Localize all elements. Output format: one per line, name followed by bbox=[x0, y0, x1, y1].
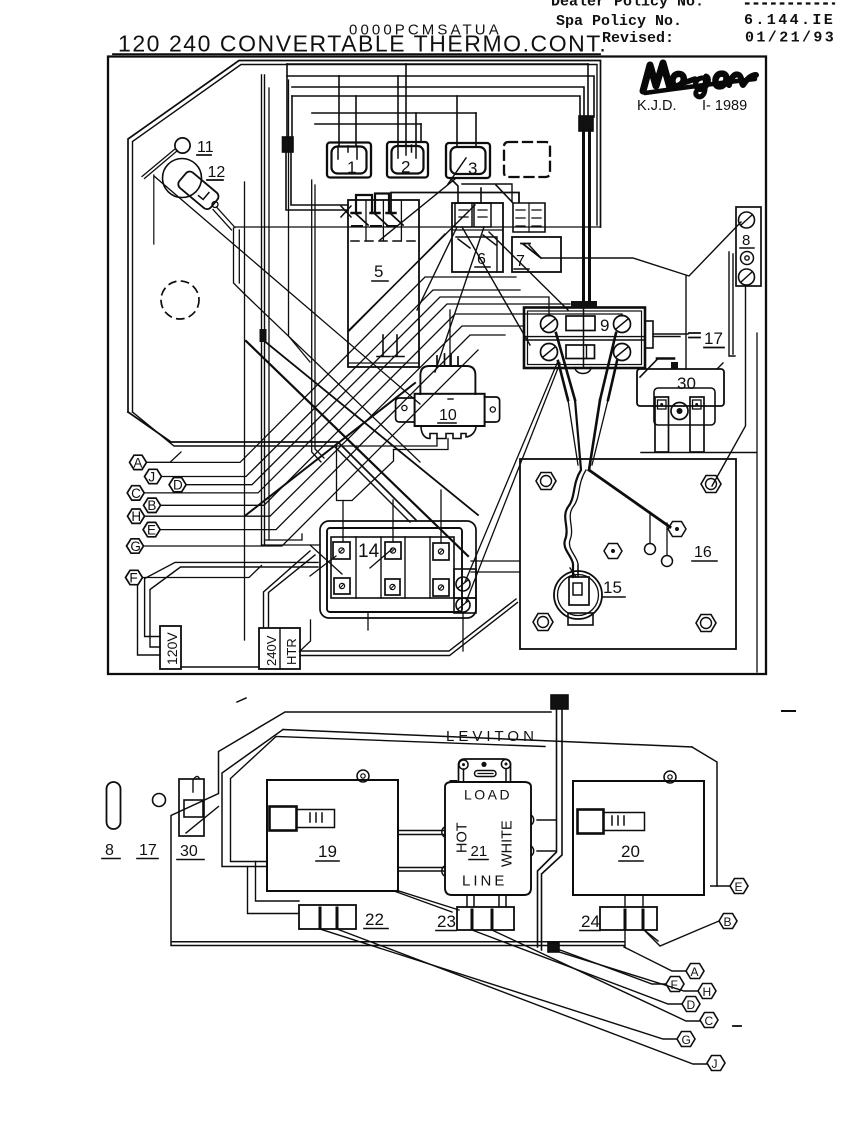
wire thick pair to comp9 bbox=[584, 131, 590, 303]
wire right-bundle drop bbox=[587, 64, 589, 117]
component 30 lower bbox=[177, 776, 219, 860]
node equals mark bbox=[689, 333, 700, 338]
hex terminal E bbox=[143, 522, 160, 537]
svg-text:24: 24 bbox=[581, 912, 600, 931]
component 30 bracket bbox=[637, 359, 756, 453]
wire cross diagonal 2 bbox=[246, 383, 415, 515]
svg-text:A: A bbox=[691, 965, 699, 979]
svg-text:C: C bbox=[131, 486, 141, 501]
wire staircase 2 bbox=[150, 567, 318, 647]
wire vertical x288 bbox=[289, 80, 311, 362]
node artifact dash2 bbox=[733, 1025, 741, 1027]
wire X cross e bbox=[489, 232, 568, 310]
svg-text:30: 30 bbox=[677, 374, 696, 393]
svg-text:G: G bbox=[130, 539, 141, 554]
wire E lower bbox=[710, 885, 730, 887]
component 9 terminal block bbox=[524, 301, 653, 368]
wire X cross c bbox=[435, 227, 484, 372]
svg-text:J: J bbox=[148, 469, 155, 484]
node circle 17 bbox=[153, 794, 166, 807]
component 7 bbox=[512, 203, 561, 272]
wire hexB route bbox=[161, 314, 623, 505]
hex terminal B bbox=[144, 498, 161, 513]
wire top bundle y76 bbox=[287, 76, 594, 117]
wire button3-to-7 bbox=[462, 184, 512, 202]
svg-text:30: 30 bbox=[180, 843, 198, 860]
wire lower enclosure inner bbox=[231, 737, 546, 862]
node dashed box 4 bbox=[504, 142, 550, 177]
svg-text:K.J.D.: K.J.D. bbox=[637, 98, 676, 114]
wire thick pair below 9 bbox=[564, 400, 581, 577]
wire D lower bbox=[472, 930, 682, 1004]
mounting plate 16 bbox=[520, 459, 736, 649]
wire inside relay diag bbox=[349, 234, 445, 331]
svg-text:20: 20 bbox=[621, 842, 640, 861]
node blob lower bbox=[548, 943, 559, 952]
svg-text:HOT: HOT bbox=[455, 822, 471, 853]
svg-text:D: D bbox=[173, 478, 183, 493]
receptacle 21 bbox=[442, 759, 534, 895]
svg-text:7: 7 bbox=[516, 253, 525, 270]
svg-text:23: 23 bbox=[437, 912, 456, 931]
wire title-underline bbox=[113, 53, 600, 55]
svg-text:3: 3 bbox=[468, 159, 477, 178]
button 1 bbox=[327, 143, 371, 178]
node dashed circle bbox=[161, 281, 199, 319]
wire 24 stubs bbox=[625, 895, 658, 947]
wire 19-21 links bbox=[398, 831, 445, 872]
button 3 bbox=[446, 143, 490, 184]
wire drop button2 a bbox=[397, 76, 399, 145]
svg-text:12: 12 bbox=[208, 164, 226, 181]
svg-text:11: 11 bbox=[197, 139, 214, 156]
wire F lower bbox=[560, 950, 666, 984]
wire fan from 9 screws bbox=[556, 333, 617, 400]
relay 5 bbox=[341, 193, 519, 368]
wire capillary from 12 bbox=[212, 202, 218, 208]
node black square connector bbox=[551, 695, 568, 709]
wire X cross d bbox=[417, 227, 457, 310]
wire drop button2 b bbox=[405, 64, 407, 145]
wire center vertical pair bbox=[262, 75, 265, 545]
wire 14 top feeds bbox=[262, 490, 442, 545]
wire hexF route bbox=[143, 566, 262, 578]
hex terminal G lower bbox=[677, 1032, 695, 1048]
wire drop button3 a bbox=[456, 96, 458, 147]
box 24 bbox=[580, 907, 657, 931]
svg-text:19: 19 bbox=[318, 842, 337, 861]
box 19 bbox=[267, 770, 398, 891]
svg-text:10: 10 bbox=[439, 407, 457, 424]
wire A-row horizontals bbox=[147, 452, 182, 462]
svg-text:17: 17 bbox=[139, 842, 157, 859]
wire X cross a bbox=[349, 205, 475, 330]
wire lower outer wire bbox=[171, 712, 624, 946]
wire lower enclosure outer bbox=[222, 730, 283, 867]
box 20 bbox=[573, 771, 704, 895]
wire 120v feeds bbox=[138, 585, 161, 655]
hex terminal B lower bbox=[719, 914, 737, 930]
svg-text:G: G bbox=[682, 1033, 691, 1047]
svg-text:H: H bbox=[703, 985, 712, 999]
svg-text:17: 17 bbox=[704, 329, 723, 348]
svg-text:Dealer Policy No.: Dealer Policy No. bbox=[551, 0, 704, 11]
svg-text:Revised:: Revised: bbox=[602, 30, 674, 47]
terminal strip 14 bbox=[310, 521, 476, 630]
svg-text:8: 8 bbox=[742, 232, 750, 249]
wire pair from square bbox=[538, 709, 563, 950]
wire lower enclosure right bbox=[692, 747, 717, 886]
wire to comp8 bbox=[529, 222, 741, 276]
svg-text:16: 16 bbox=[694, 544, 712, 561]
hex terminal G bbox=[127, 539, 144, 554]
box 22 bbox=[299, 905, 388, 929]
wire drop button1 b bbox=[355, 96, 357, 146]
svg-text:C: C bbox=[705, 1014, 714, 1028]
wire left-blob drop bbox=[287, 64, 292, 137]
wire hexH route bbox=[145, 326, 525, 516]
hex terminal J bbox=[145, 469, 162, 484]
svg-text:6.144.IE: 6.144.IE bbox=[744, 12, 835, 29]
wire drop button2 d bbox=[420, 124, 422, 142]
node 120V box bbox=[160, 626, 181, 669]
wire capillary 17 bbox=[653, 334, 688, 337]
component 6 bbox=[452, 203, 503, 272]
wire top bundle y64 bbox=[287, 63, 588, 65]
hex terminal C bbox=[127, 486, 144, 501]
node blob on center pair bbox=[260, 329, 267, 342]
wire H lower bbox=[553, 950, 698, 991]
svg-text:22: 22 bbox=[365, 910, 384, 929]
wire vertical x269 bbox=[268, 88, 270, 540]
wire thick diag to hex16 bbox=[589, 470, 670, 527]
hex terminal J lower bbox=[707, 1056, 725, 1072]
node connector blob right bbox=[579, 116, 593, 131]
wire B lower bbox=[644, 921, 719, 946]
node connector blob left bbox=[283, 137, 294, 152]
hex terminal E lower bbox=[730, 879, 748, 895]
wire hexJ route bbox=[162, 290, 521, 477]
wire vertical x244 bbox=[244, 182, 246, 640]
svg-text:D: D bbox=[687, 998, 696, 1012]
svg-text:240V: 240V bbox=[264, 635, 279, 666]
node morgan-signature bbox=[643, 63, 756, 97]
wire J lower bbox=[337, 929, 707, 1064]
wire drop button1 a bbox=[338, 76, 340, 146]
svg-text:B: B bbox=[724, 915, 732, 929]
wire 11 pointer bbox=[142, 149, 178, 179]
svg-text:120 240 CONVERTABLE THERMO.CON: 120 240 CONVERTABLE THERMO.CONT. bbox=[118, 31, 607, 57]
wire top bundle y124 bbox=[315, 123, 421, 125]
hex terminal C lower bbox=[700, 1013, 718, 1029]
node 240V HTR box bbox=[259, 628, 300, 669]
wire pcb outline bottom-left diagonal inner bbox=[133, 412, 411, 522]
wire X cross b bbox=[462, 227, 530, 345]
wire 7-to-left stub bbox=[496, 185, 513, 203]
svg-text:E: E bbox=[735, 880, 743, 894]
wire hexE route bbox=[160, 335, 505, 530]
svg-text:B: B bbox=[147, 498, 156, 513]
wire top bundle y87 bbox=[292, 87, 584, 117]
wire pcb outline left/top (inner) bbox=[133, 65, 598, 413]
svg-text:14: 14 bbox=[358, 541, 380, 562]
box 23 bbox=[436, 907, 514, 931]
wire below left blob bbox=[286, 152, 348, 210]
wire 10 bottom feeds bbox=[337, 439, 449, 450]
node artifact dash bbox=[782, 710, 795, 712]
wire drop button3 b bbox=[475, 113, 477, 147]
wire right inner vertical bbox=[756, 333, 758, 672]
hex terminal H lower bbox=[698, 984, 716, 1000]
wire C lower bbox=[492, 930, 700, 1021]
hex terminal A lower bbox=[686, 964, 704, 980]
svg-text:J: J bbox=[712, 1057, 718, 1071]
wire G lower bbox=[320, 929, 677, 1039]
hex terminal H bbox=[128, 509, 145, 524]
wire pcb outline bottom-left diagonal bbox=[128, 412, 416, 520]
svg-text:8: 8 bbox=[105, 842, 114, 859]
svg-text:LOAD: LOAD bbox=[464, 787, 512, 803]
wire 19 bottom diag bbox=[394, 891, 459, 912]
svg-text:LEVITON: LEVITON bbox=[446, 728, 538, 745]
wire capillary sheath bbox=[234, 228, 245, 294]
wire y227 horizontal trunk bbox=[235, 226, 601, 228]
node artifact tick bbox=[237, 698, 246, 702]
wire top bundle y96 bbox=[292, 96, 580, 117]
wire 8 bottom to plate bbox=[712, 286, 746, 486]
svg-text:F: F bbox=[671, 978, 678, 992]
wire capillary thin diagonal bbox=[154, 176, 420, 462]
component 8 terminal column bbox=[729, 207, 761, 356]
svg-text:2: 2 bbox=[401, 158, 410, 177]
svg-text:H: H bbox=[131, 509, 141, 524]
wire vertical pair x312 bbox=[312, 180, 324, 462]
hex terminal A bbox=[130, 455, 147, 470]
wire bottom trunk bbox=[300, 599, 518, 656]
svg-text:Spa Policy No.: Spa Policy No. bbox=[556, 13, 682, 30]
svg-text:I- 1989: I- 1989 bbox=[702, 98, 747, 114]
wire 14 bottom stubs bbox=[462, 613, 464, 651]
transformer 10 bbox=[396, 310, 500, 439]
component 11 bbox=[175, 138, 190, 153]
wire into 30 top bbox=[685, 276, 687, 369]
wire 21 bottom legs bbox=[467, 895, 506, 907]
wire top bundle y113 bbox=[312, 112, 476, 114]
wire pcb outline left/top (outer) bbox=[128, 61, 601, 413]
wire 120v-240v link bbox=[181, 666, 259, 668]
wire hexG route bbox=[144, 350, 479, 546]
sensor 15 bbox=[554, 565, 625, 625]
wire hexA route bbox=[147, 277, 517, 462]
svg-text:F: F bbox=[129, 570, 137, 585]
wire hexC route bbox=[144, 304, 570, 493]
svg-text:WHITE: WHITE bbox=[500, 820, 516, 867]
svg-text:1: 1 bbox=[347, 158, 356, 177]
button 2 bbox=[387, 142, 428, 178]
hex terminal F bbox=[126, 570, 143, 585]
hex terminal D bbox=[169, 478, 186, 493]
svg-text:LINE: LINE bbox=[462, 873, 507, 890]
svg-text:15: 15 bbox=[603, 578, 622, 597]
wire hexD route bbox=[186, 297, 549, 485]
node main enclosure box bbox=[108, 57, 766, 675]
wire cross from button3 bbox=[380, 179, 455, 240]
wire 21-pair links bbox=[537, 820, 556, 851]
thermostat 12 bbox=[163, 159, 226, 212]
wire thick diagonal bbox=[246, 341, 468, 556]
wire 240v feeds bbox=[264, 551, 316, 627]
svg-text:120V: 120V bbox=[164, 632, 180, 665]
svg-text:21: 21 bbox=[471, 843, 488, 860]
svg-text:E: E bbox=[147, 523, 156, 538]
svg-text:A: A bbox=[133, 455, 142, 470]
svg-text:HTR: HTR bbox=[284, 638, 299, 665]
svg-text:9: 9 bbox=[600, 316, 609, 335]
svg-text:01/21/93: 01/21/93 bbox=[745, 30, 836, 47]
wire drop button2 c bbox=[415, 113, 417, 145]
wire staircase 1 bbox=[145, 562, 318, 636]
hex terminal F lower bbox=[666, 977, 684, 993]
hex terminal D lower bbox=[682, 997, 700, 1013]
node pill 8 bbox=[107, 782, 121, 829]
wire 6-to-button3 stub bbox=[450, 178, 481, 203]
svg-text:5: 5 bbox=[374, 262, 383, 281]
wire 14-plate links bbox=[471, 561, 520, 572]
wire A lower bbox=[624, 947, 686, 971]
wire 19 left feeds bbox=[248, 862, 300, 914]
